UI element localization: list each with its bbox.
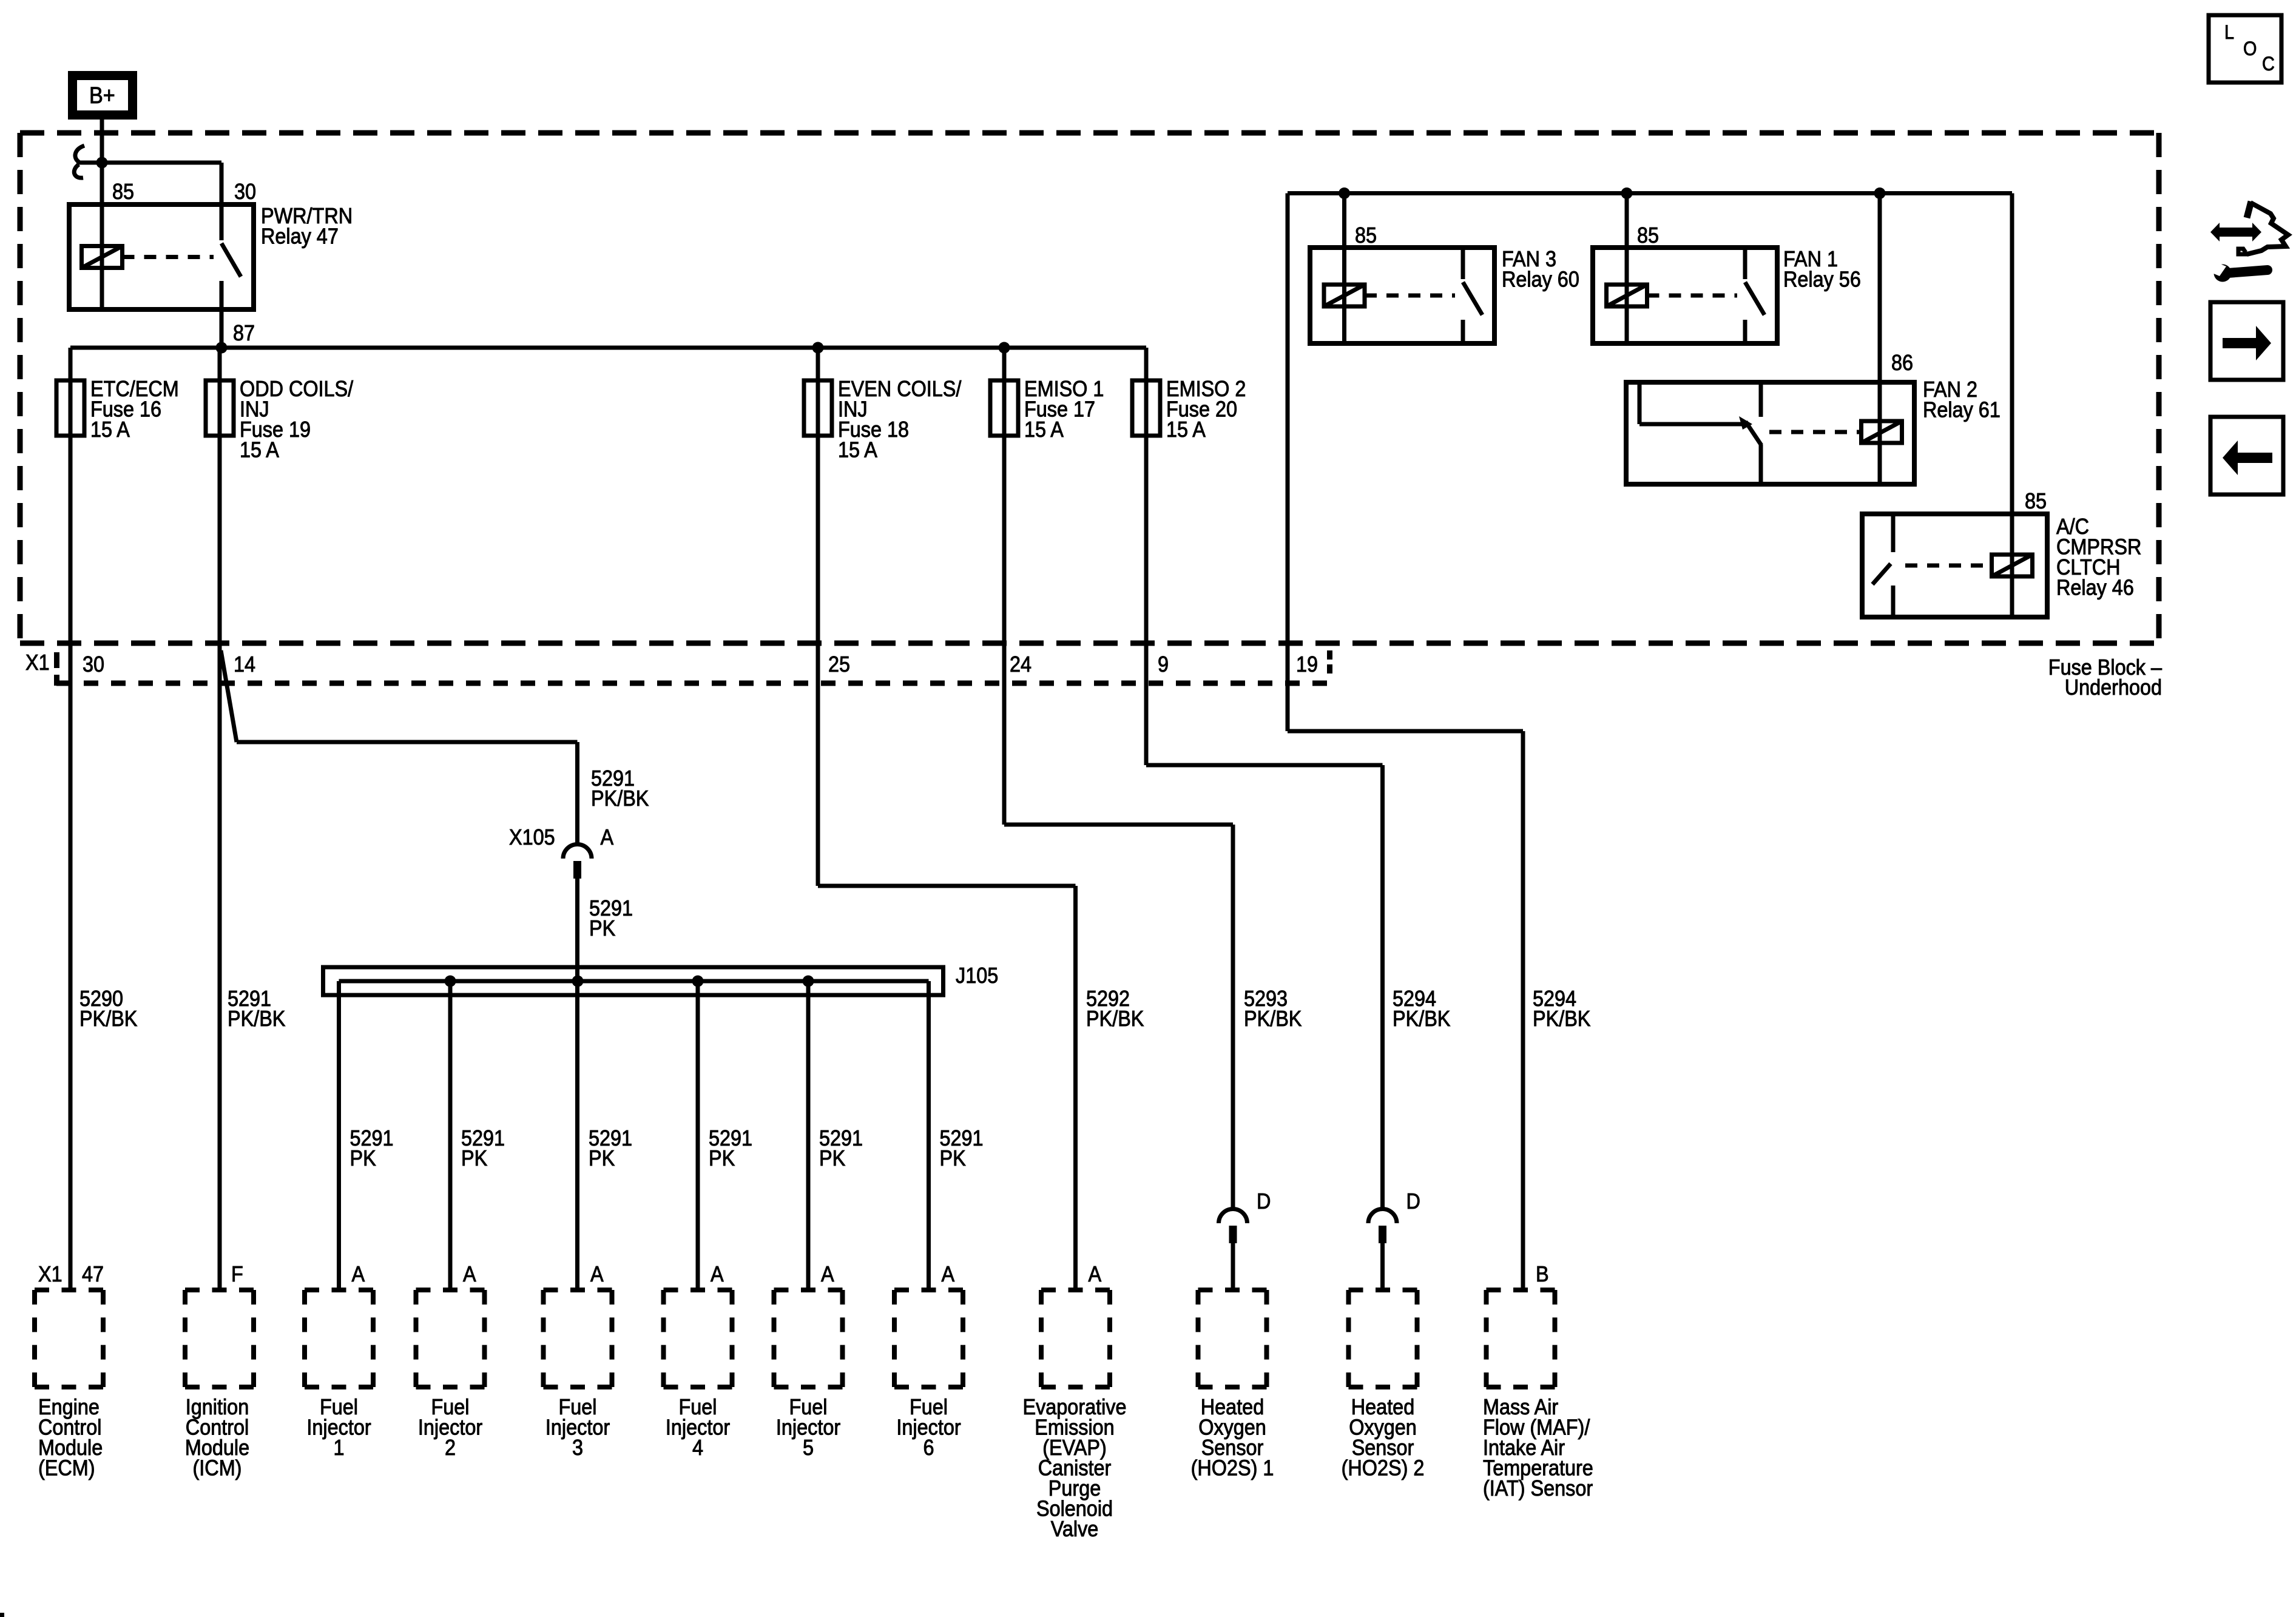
svg-text:C: C: [2262, 53, 2275, 75]
svg-text:J105: J105: [956, 964, 998, 988]
svg-text:15 A: 15 A: [1024, 417, 1064, 442]
svg-text:A: A: [711, 1262, 724, 1286]
svg-text:15 A: 15 A: [240, 438, 279, 462]
svg-text:Relay 46: Relay 46: [2056, 576, 2134, 600]
svg-text:PK: PK: [940, 1146, 966, 1170]
svg-text:PK/BK: PK/BK: [1533, 1007, 1591, 1031]
svg-text:X1: X1: [25, 650, 50, 675]
svg-text:3: 3: [572, 1436, 583, 1460]
svg-text:47: 47: [82, 1262, 104, 1286]
svg-text:Relay 56: Relay 56: [1783, 268, 1861, 292]
svg-text:X105: X105: [509, 825, 555, 849]
svg-text:Relay 47: Relay 47: [261, 224, 339, 249]
svg-text:6: 6: [923, 1436, 934, 1460]
svg-text:(HO2S) 1: (HO2S) 1: [1191, 1456, 1274, 1480]
svg-text:Relay 61: Relay 61: [1923, 398, 2001, 422]
svg-text:15 A: 15 A: [1166, 417, 1206, 442]
svg-text:D: D: [1257, 1189, 1271, 1214]
svg-text:9: 9: [1158, 652, 1169, 677]
svg-text:30: 30: [83, 652, 104, 677]
svg-text:2: 2: [445, 1436, 456, 1460]
svg-text:A: A: [590, 1262, 604, 1286]
svg-text:PK/BK: PK/BK: [1393, 1007, 1451, 1031]
svg-text:(ECM): (ECM): [38, 1456, 95, 1480]
svg-text:24: 24: [1010, 652, 1032, 677]
svg-text:L: L: [2224, 22, 2234, 44]
svg-text:85: 85: [112, 180, 134, 204]
svg-text:PK: PK: [350, 1146, 376, 1170]
svg-text:4: 4: [692, 1436, 703, 1460]
svg-text:(HO2S) 2: (HO2S) 2: [1342, 1456, 1425, 1480]
svg-text:87: 87: [233, 321, 255, 345]
svg-text:A: A: [821, 1262, 834, 1286]
svg-text:A: A: [601, 825, 614, 849]
svg-text:O: O: [2243, 38, 2257, 60]
svg-text:15 A: 15 A: [90, 417, 130, 442]
svg-text:(ICM): (ICM): [193, 1456, 242, 1480]
svg-text:A: A: [463, 1262, 476, 1286]
svg-text:A: A: [1089, 1262, 1102, 1286]
svg-text:PK/BK: PK/BK: [228, 1007, 286, 1031]
svg-text:F: F: [231, 1262, 243, 1286]
svg-text:PK: PK: [589, 1146, 615, 1170]
svg-text:Valve: Valve: [1051, 1517, 1099, 1541]
svg-text:A: A: [942, 1262, 955, 1286]
svg-text:D: D: [1406, 1189, 1420, 1214]
svg-text:30: 30: [234, 180, 256, 204]
svg-text:19: 19: [1296, 652, 1318, 677]
svg-text:85: 85: [1355, 223, 1377, 248]
svg-text:PK/BK: PK/BK: [79, 1007, 138, 1031]
svg-text:PK/BK: PK/BK: [591, 786, 649, 811]
svg-text:PK: PK: [589, 916, 615, 940]
svg-text:(IAT) Sensor: (IAT) Sensor: [1483, 1476, 1593, 1501]
svg-text:85: 85: [1637, 223, 1659, 248]
svg-text:14: 14: [234, 652, 255, 677]
svg-text:PK: PK: [461, 1146, 487, 1170]
svg-text:PK: PK: [819, 1146, 845, 1170]
svg-text:A: A: [352, 1262, 365, 1286]
svg-text:1: 1: [333, 1436, 344, 1460]
svg-text:B: B: [1536, 1262, 1549, 1286]
svg-text:Relay 60: Relay 60: [1502, 268, 1579, 292]
svg-text:X1: X1: [38, 1262, 62, 1286]
svg-text:PK: PK: [709, 1146, 735, 1170]
svg-text:86: 86: [1891, 351, 1913, 375]
svg-text:15 A: 15 A: [838, 438, 877, 462]
svg-text:85: 85: [2025, 489, 2047, 513]
svg-text:PK/BK: PK/BK: [1086, 1007, 1144, 1031]
svg-text:5: 5: [803, 1436, 814, 1460]
svg-text:25: 25: [828, 652, 850, 677]
svg-text:B+: B+: [89, 82, 115, 108]
svg-text:PK/BK: PK/BK: [1244, 1007, 1302, 1031]
svg-text:Underhood: Underhood: [2065, 675, 2162, 700]
